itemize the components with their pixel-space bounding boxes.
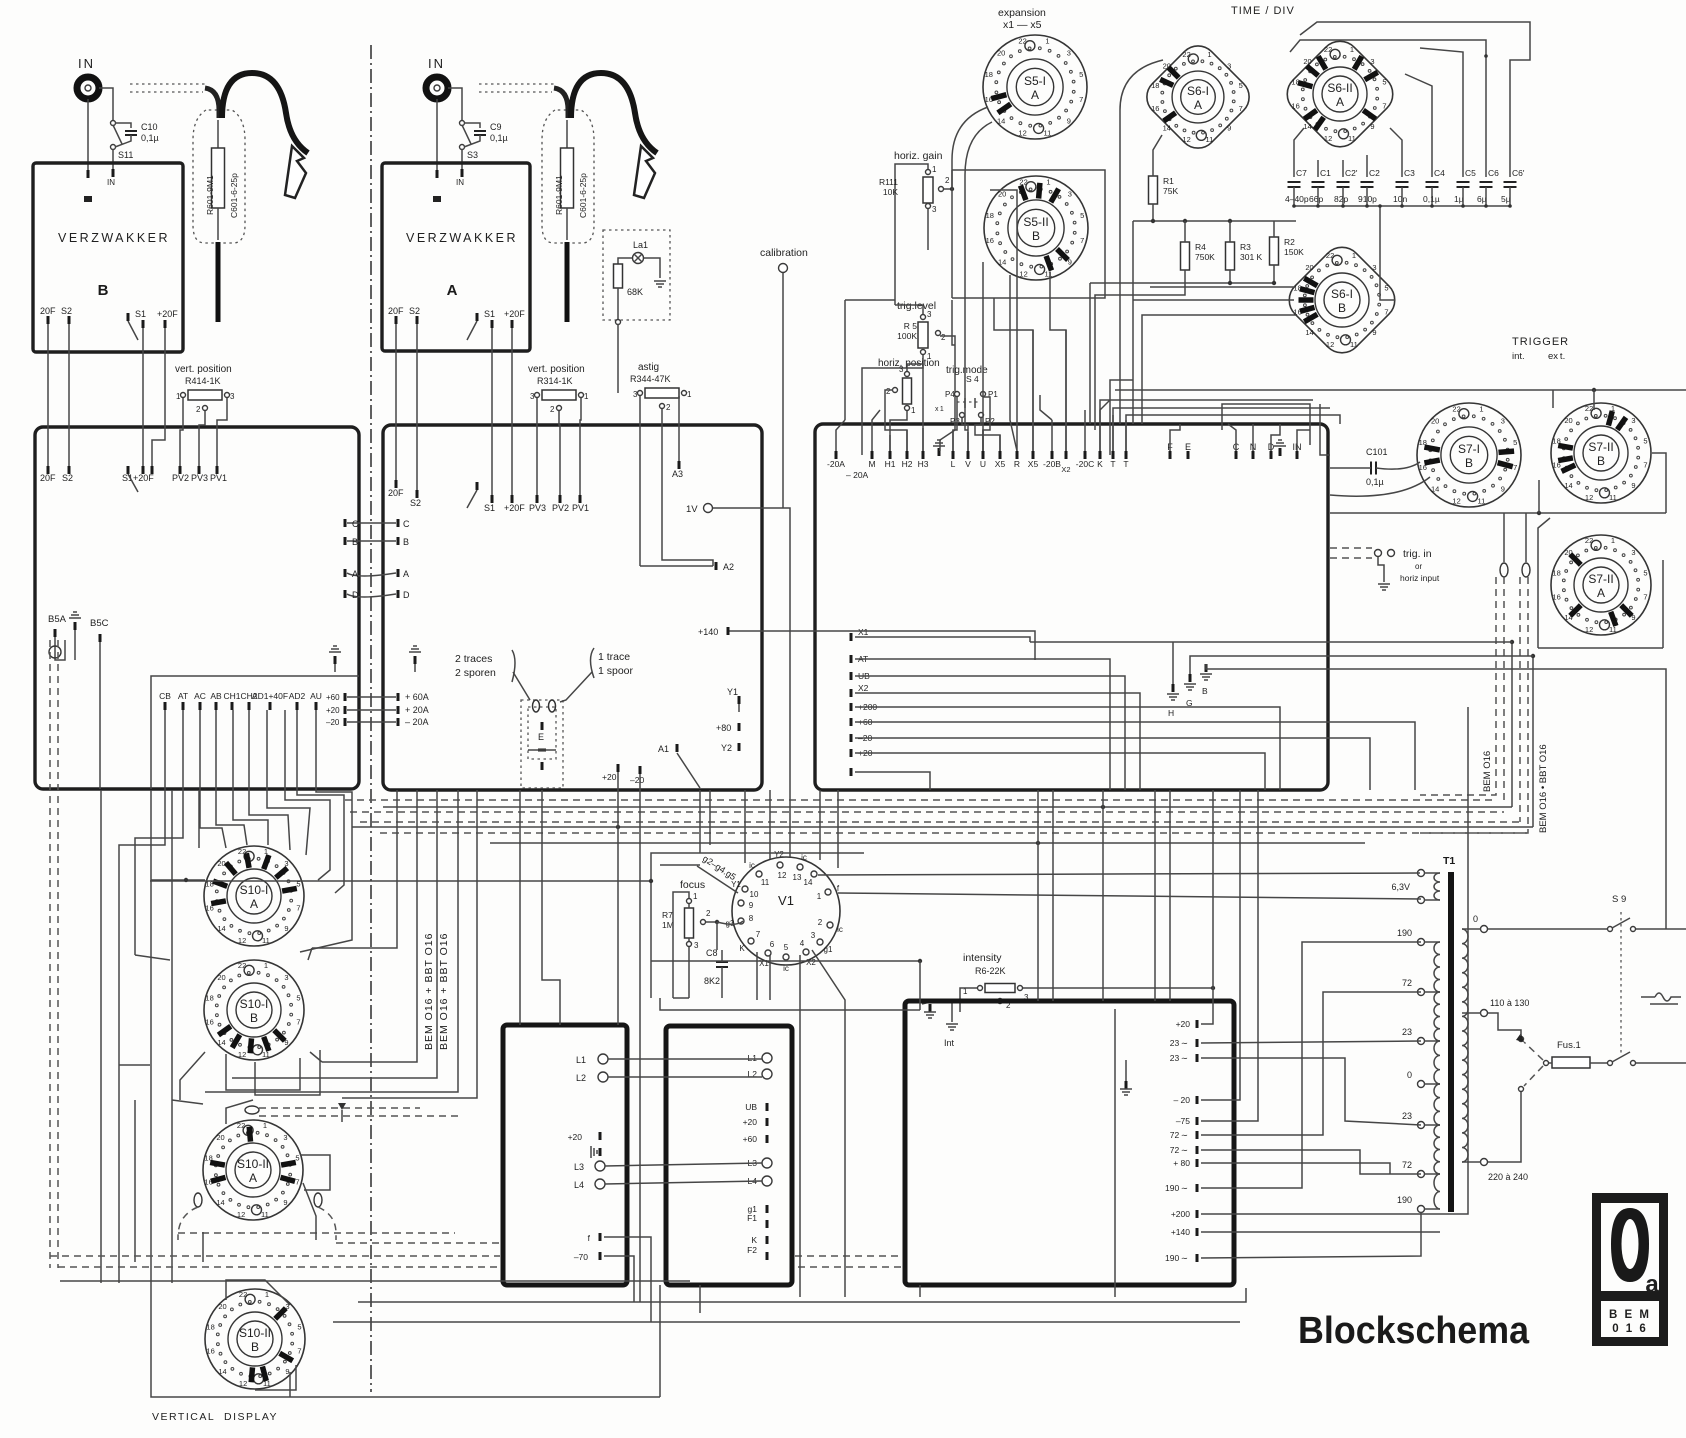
wires +140 and calibration flow	[748, 631, 1035, 660]
svg-text:S 4: S 4	[966, 374, 979, 384]
wire bus dashed horizontals under blocks	[345, 800, 1528, 833]
svg-text:3: 3	[811, 931, 816, 940]
svg-text:– 20A: – 20A	[846, 470, 869, 480]
svg-text:190 ∼: 190 ∼	[1165, 1183, 1188, 1193]
lamp La1 with 68K (dashed box)	[603, 230, 670, 320]
pins L1 L2 (bezel)	[598, 1054, 608, 1064]
svg-text:2: 2	[196, 405, 201, 414]
svg-text:2: 2	[666, 403, 671, 412]
svg-text:AT: AT	[178, 691, 188, 701]
svg-text:10K: 10K	[883, 187, 898, 197]
node trig.in	[1375, 550, 1382, 557]
svg-text:190 ∼: 190 ∼	[1165, 1253, 1188, 1263]
svg-text:3: 3	[694, 941, 699, 950]
wires caps top to S6-II	[1293, 151, 1295, 166]
node C (inter-block link)	[344, 519, 347, 527]
svg-text:C101: C101	[1366, 447, 1388, 457]
svg-text:18: 18	[205, 994, 213, 1003]
node B (inter-block link)	[344, 537, 347, 545]
wires focus	[688, 904, 690, 908]
svg-text:R 5: R 5	[904, 321, 918, 331]
svg-text:7: 7	[297, 1346, 301, 1355]
svg-text:C8: C8	[706, 948, 718, 958]
svg-text:14: 14	[1564, 481, 1572, 490]
svg-text:C2': C2'	[1345, 168, 1358, 178]
svg-text:14: 14	[217, 1038, 225, 1047]
pins VERZWAKKER B bottom	[47, 316, 50, 324]
svg-text:ic: ic	[783, 964, 789, 973]
svg-text:x1 — x5: x1 — x5	[1003, 19, 1042, 31]
resistor R2 150K	[1270, 237, 1279, 265]
svg-text:+ 60A: + 60A	[405, 692, 429, 702]
svg-text:1: 1	[687, 390, 692, 399]
svg-text:R: R	[1014, 459, 1020, 469]
svg-text:R314-1K: R314-1K	[537, 376, 573, 386]
wire jack B to S11	[99, 88, 113, 120]
rotary switch S10-I A	[204, 846, 304, 946]
svg-text:18: 18	[1552, 569, 1560, 578]
svg-text:–20: –20	[326, 718, 340, 727]
wire box C N D IN	[1222, 404, 1310, 445]
primary winding	[1462, 929, 1468, 1162]
svg-text:X2: X2	[806, 958, 816, 967]
svg-text:9: 9	[1227, 124, 1231, 133]
secondary winding taps	[1418, 939, 1425, 946]
svg-text:– 20A: – 20A	[405, 717, 429, 727]
svg-text:A: A	[249, 1171, 257, 1185]
wire bus solid horizontals under blocks	[383, 806, 1512, 808]
svg-text:X5: X5	[1028, 459, 1039, 469]
svg-text:1: 1	[1479, 404, 1483, 413]
svg-text:11: 11	[1348, 134, 1356, 143]
svg-text:190: 190	[1397, 1195, 1412, 1205]
pins E (trace selector)	[521, 700, 563, 788]
svg-text:+20: +20	[326, 706, 340, 715]
svg-text:TIME / DIV: TIME / DIV	[1231, 5, 1295, 17]
svg-text:B5C: B5C	[90, 618, 109, 629]
svg-text:1: 1	[817, 892, 822, 901]
svg-text:E: E	[1185, 442, 1191, 452]
svg-text:A: A	[1336, 95, 1344, 109]
pins CRT socket right column	[762, 1053, 772, 1063]
svg-text:C5: C5	[1465, 168, 1476, 178]
svg-text:S5-I: S5-I	[1024, 74, 1046, 88]
svg-text:0: 0	[1473, 914, 1478, 924]
svg-text:7: 7	[1382, 101, 1386, 110]
dashed verticals left	[50, 640, 58, 1268]
svg-text:100K: 100K	[897, 331, 917, 341]
ground (lamp box)	[644, 258, 660, 278]
svg-text:Fus.1: Fus.1	[1557, 1040, 1581, 1051]
svg-text:focus: focus	[680, 879, 705, 891]
svg-text:La1: La1	[633, 240, 648, 250]
svg-text:B: B	[1338, 301, 1346, 315]
svg-text:5: 5	[1079, 70, 1083, 79]
svg-text:18: 18	[1151, 81, 1159, 90]
svg-text:B: B	[98, 282, 109, 299]
svg-text:A: A	[1031, 88, 1039, 102]
svg-text:14: 14	[997, 116, 1005, 125]
wires S6-I B fan left	[1150, 286, 1295, 288]
svg-text:X2: X2	[858, 683, 869, 693]
wires H G B grounds to S7 rects	[1172, 642, 1174, 684]
svg-text:3: 3	[1631, 416, 1635, 425]
switch S11	[111, 121, 116, 126]
svg-text:16: 16	[986, 236, 994, 245]
svg-text:V: V	[965, 459, 971, 469]
svg-text:C1: C1	[1320, 168, 1331, 178]
svg-text:PV2: PV2	[552, 503, 569, 513]
wire S6-I A to R1	[1153, 135, 1162, 176]
svg-text:R601-9M1: R601-9M1	[205, 175, 215, 215]
svg-text:3: 3	[530, 392, 535, 401]
svg-text:vert. position: vert. position	[175, 364, 232, 375]
svg-text:S2: S2	[62, 473, 73, 483]
pins timebase block top row	[835, 451, 838, 459]
svg-text:AB: AB	[210, 691, 222, 701]
capacitor C2 910p	[1361, 182, 1374, 187]
wires V1 bottom pins down	[799, 955, 801, 1297]
wires supply right pins to transformer	[1201, 790, 1213, 1024]
svg-text:Y2: Y2	[774, 850, 784, 859]
svg-text:D: D	[403, 590, 410, 600]
svg-text:A3: A3	[672, 469, 683, 479]
svg-text:7: 7	[1643, 592, 1647, 601]
svg-text:0,1µ: 0,1µ	[490, 133, 508, 143]
svg-text:9: 9	[749, 901, 754, 910]
svg-text:11: 11	[1609, 625, 1617, 634]
svg-text:R4: R4	[1195, 242, 1206, 252]
svg-text:B E M: B E M	[1609, 1309, 1651, 1321]
svg-text:S3: S3	[467, 150, 478, 160]
svg-text:2: 2	[550, 405, 555, 414]
rotary switch S10-I B	[204, 960, 304, 1060]
svg-text:12: 12	[1182, 135, 1190, 144]
svg-text:+20F: +20F	[504, 503, 525, 513]
svg-text:190: 190	[1397, 928, 1412, 938]
svg-text:-20C: -20C	[1076, 459, 1094, 469]
svg-text:1V: 1V	[686, 504, 698, 515]
pins left block top	[47, 466, 50, 474]
svg-text:ex t.: ex t.	[1548, 351, 1565, 362]
capacitor C4 0,1&#181;	[1426, 182, 1439, 187]
svg-text:12: 12	[1585, 493, 1593, 502]
svg-text:150K: 150K	[1284, 247, 1304, 257]
svg-text:3: 3	[1501, 417, 1505, 426]
wire dashed to trig.in	[1330, 548, 1372, 558]
svg-text:+ 80: + 80	[1173, 1158, 1190, 1168]
svg-text:C10: C10	[141, 122, 158, 132]
svg-text:3: 3	[927, 310, 932, 319]
svg-text:1: 1	[693, 892, 698, 901]
svg-text:5: 5	[784, 943, 789, 952]
wire S11 to IN pin	[112, 149, 114, 170]
block vertical amplifier B (left)	[35, 427, 359, 789]
svg-text:+20: +20	[743, 1117, 758, 1127]
svg-text:5: 5	[1643, 569, 1647, 578]
rotary switch S7-II B	[1551, 403, 1651, 503]
svg-text:Int: Int	[944, 1038, 955, 1048]
pins mid block top	[395, 480, 398, 488]
wires VERZWAKKER B to left block	[47, 324, 49, 466]
block power supply	[905, 1001, 1234, 1285]
svg-text:2 traces: 2 traces	[455, 653, 492, 665]
svg-text:7: 7	[1513, 463, 1517, 472]
svg-text:B: B	[1032, 229, 1040, 243]
wire coax cable B	[205, 88, 219, 118]
svg-text:BEM O16 + BBT O16: BEM O16 + BBT O16	[423, 933, 435, 1050]
svg-text:6,3V: 6,3V	[1391, 882, 1410, 892]
svg-text:301 K: 301 K	[1240, 252, 1263, 262]
svg-text:S1: S1	[484, 309, 495, 319]
svg-text:S6-II: S6-II	[1327, 81, 1352, 95]
wire top loop S6-II	[1294, 128, 1304, 151]
svg-text:1 trace: 1 trace	[598, 651, 630, 663]
capacitor C1 66p	[1312, 182, 1325, 187]
svg-text:expansion: expansion	[998, 7, 1046, 19]
svg-text:9: 9	[1372, 328, 1376, 337]
svg-text:7: 7	[1239, 104, 1243, 113]
svg-text:S7-I: S7-I	[1458, 442, 1480, 456]
svg-text:+60: +60	[743, 1134, 758, 1144]
wire inner box (left block outputs)	[151, 676, 359, 789]
svg-text:1: 1	[1611, 536, 1615, 545]
switch S3	[460, 121, 465, 126]
svg-text:A: A	[403, 569, 409, 579]
svg-text:AU: AU	[310, 691, 322, 701]
svg-text:B: B	[352, 537, 358, 547]
svg-text:14: 14	[1431, 484, 1439, 493]
wire box S10-II A	[172, 1100, 203, 1104]
wire nest S10-I B	[119, 1064, 150, 1066]
pins +20 L3 L4 f -70 (bezel right)	[599, 1132, 602, 1140]
svg-text:3: 3	[1067, 49, 1071, 58]
pins timebase left edge	[850, 633, 853, 641]
wire calibration to 1V	[782, 273, 784, 508]
cable connectors at S10-II A	[245, 1106, 259, 1114]
pins VERZWAKKER A bottom	[395, 316, 398, 324]
wire jack A to S3	[448, 88, 462, 120]
svg-text:K: K	[751, 1235, 757, 1245]
probe assembly A	[479, 84, 554, 92]
svg-text:18: 18	[986, 211, 994, 220]
svg-text:a: a	[1645, 1271, 1659, 1298]
svg-text:PV1: PV1	[572, 503, 589, 513]
svg-text:IN: IN	[78, 56, 95, 71]
svg-text:9: 9	[1370, 122, 1374, 131]
svg-text:S6-I: S6-I	[1187, 84, 1209, 98]
svg-text:9: 9	[1501, 484, 1505, 493]
svg-text:20: 20	[218, 1302, 226, 1311]
svg-text:11: 11	[261, 1210, 269, 1219]
svg-text:PV2: PV2	[172, 473, 189, 483]
ground pin top of supply block	[929, 1004, 932, 1012]
svg-text:1: 1	[932, 165, 937, 174]
svg-text:7: 7	[1384, 307, 1388, 316]
svg-text:S10-I: S10-I	[240, 997, 269, 1011]
svg-text:1M: 1M	[662, 920, 674, 930]
svg-text:1: 1	[1352, 251, 1356, 260]
block VERZWAKKER A	[382, 163, 530, 351]
svg-text:72: 72	[1402, 978, 1412, 988]
svg-text:A2: A2	[723, 562, 734, 572]
svg-text:B: B	[1202, 686, 1208, 696]
wire capacitor bus	[1294, 205, 1510, 207]
svg-text:5: 5	[1382, 78, 1386, 87]
svg-text:+20: +20	[602, 772, 617, 782]
svg-text:20: 20	[1431, 417, 1439, 426]
svg-text:4: 4	[800, 939, 805, 948]
svg-text:TRIGGER: TRIGGER	[1512, 336, 1569, 348]
svg-text:18: 18	[985, 70, 993, 79]
svg-text:R601-9M1: R601-9M1	[554, 175, 564, 215]
svg-text:20F: 20F	[40, 306, 56, 316]
svg-text:B: B	[1465, 456, 1473, 470]
svg-text:K: K	[1097, 459, 1103, 469]
svg-text:12: 12	[239, 1379, 247, 1388]
svg-text:11: 11	[262, 1050, 270, 1059]
probe tip A	[566, 208, 568, 240]
svg-text:20: 20	[217, 859, 225, 868]
svg-text:C6: C6	[1488, 168, 1499, 178]
svg-text:A: A	[1194, 98, 1202, 112]
svg-text:0 1 6: 0 1 6	[1612, 1323, 1648, 1335]
svg-text:C601-6-25p: C601-6-25p	[578, 173, 588, 218]
svg-text:T: T	[1110, 459, 1115, 469]
capacitor C3 10n	[1396, 182, 1409, 187]
svg-text:C6': C6'	[1512, 168, 1525, 178]
svg-text:68K: 68K	[627, 287, 643, 297]
svg-text:110 à 130: 110 à 130	[1490, 998, 1529, 1008]
node A (inter-block link)	[344, 569, 347, 577]
svg-text:Blockschema: Blockschema	[1298, 1310, 1530, 1352]
svg-text:1: 1	[265, 1290, 269, 1299]
svg-text:5: 5	[1513, 438, 1517, 447]
svg-text:3: 3	[1370, 57, 1374, 66]
wires S5-I down left	[965, 122, 992, 260]
svg-text:1: 1	[1046, 177, 1050, 186]
svg-text:Y2: Y2	[721, 743, 732, 753]
wires trig level	[895, 305, 923, 314]
verticals between blocks right	[1037, 790, 1039, 1001]
svg-text:A: A	[447, 282, 458, 299]
svg-text:72 ∼: 72 ∼	[1170, 1130, 1188, 1140]
svg-text:horiz input: horiz input	[1400, 573, 1440, 583]
svg-text:3: 3	[1227, 61, 1231, 70]
wires down to S10-II A	[100, 790, 102, 1283]
svg-text:V1: V1	[778, 893, 794, 908]
svg-text:12: 12	[1452, 497, 1460, 506]
dashed horizontals lower left	[50, 1256, 903, 1267]
rotary switch S10-II A	[203, 1120, 303, 1220]
svg-text:1: 1	[263, 1121, 267, 1130]
capacitor C9	[464, 123, 480, 128]
svg-text:14: 14	[217, 924, 225, 933]
alligator clip B	[285, 146, 306, 198]
svg-text:10: 10	[750, 890, 759, 899]
wire mesh bottom central	[699, 1285, 701, 1313]
wires C N D IN to S7	[1228, 424, 1236, 451]
svg-text:IN: IN	[456, 178, 464, 187]
svg-text:P4: P4	[945, 390, 955, 399]
svg-text:9: 9	[284, 924, 288, 933]
svg-text:K: K	[739, 944, 745, 953]
svg-text:1: 1	[1207, 50, 1211, 59]
svg-text:D: D	[352, 590, 359, 600]
svg-text:0,1µ: 0,1µ	[1366, 477, 1384, 487]
svg-text:S2: S2	[61, 306, 72, 316]
wire 68K down to astig	[617, 288, 619, 320]
svg-text:20: 20	[998, 190, 1006, 199]
svg-text:750K: 750K	[1195, 252, 1215, 262]
wire box around V1	[651, 853, 864, 998]
svg-text:H3: H3	[918, 459, 929, 469]
svg-text:BEM O16 • BBT O16: BEM O16 • BBT O16	[1538, 744, 1549, 833]
svg-text:C601-6-25p: C601-6-25p	[229, 173, 239, 218]
svg-text:9: 9	[283, 1198, 287, 1207]
svg-text:L2: L2	[576, 1073, 586, 1083]
rotary switch S10-II B	[205, 1289, 305, 1389]
svg-text:C2: C2	[1369, 168, 1380, 178]
svg-text:18: 18	[206, 1323, 214, 1332]
svg-text:A: A	[1597, 586, 1605, 600]
svg-text:3: 3	[633, 390, 638, 399]
svg-text:ic: ic	[801, 853, 807, 862]
svg-text:14: 14	[804, 878, 813, 887]
wire trig.in ground	[1378, 557, 1384, 582]
wire g2-g4.g5	[697, 866, 738, 893]
svg-text:ic: ic	[749, 861, 755, 870]
svg-text:75K: 75K	[1163, 186, 1178, 196]
svg-text:R111: R111	[879, 177, 898, 187]
wire coax cable A	[554, 88, 568, 118]
svg-text:R6-22K: R6-22K	[975, 966, 1006, 976]
wire jack A down	[436, 99, 438, 172]
svg-text:7: 7	[295, 1177, 299, 1186]
svg-text:11: 11	[1045, 270, 1053, 279]
svg-text:7: 7	[1643, 460, 1647, 469]
svg-text:14: 14	[1305, 328, 1313, 337]
pins C N D IN	[1235, 451, 1238, 459]
svg-text:12: 12	[1324, 134, 1332, 143]
wire F E to down-left	[1110, 380, 1133, 455]
svg-text:5: 5	[1080, 211, 1084, 220]
svg-text:20F: 20F	[388, 488, 404, 498]
svg-text:C9: C9	[490, 122, 502, 132]
wire center dash-dot separator	[370, 45, 372, 1392]
svg-text:Y1: Y1	[727, 687, 738, 697]
svg-text:ic: ic	[837, 925, 843, 934]
svg-text:vert. position: vert. position	[528, 364, 585, 375]
svg-text:20: 20	[217, 973, 225, 982]
block CRT bezel (bottom left)	[503, 1025, 627, 1285]
ground inside supply	[1125, 1081, 1128, 1089]
svg-text:14: 14	[216, 1198, 224, 1207]
svg-text:14: 14	[998, 257, 1006, 266]
svg-text:20: 20	[1305, 263, 1313, 272]
pins left block output row	[164, 702, 167, 710]
svg-text:S10-I: S10-I	[240, 883, 269, 897]
svg-text:AD1+40F: AD1+40F	[252, 691, 288, 701]
capacitor C6' 5&#181;	[1504, 182, 1517, 187]
svg-text:8K2: 8K2	[704, 976, 720, 986]
block vertical amplifier A (middle)	[383, 425, 762, 790]
ground pins above inner box	[334, 656, 337, 664]
svg-text:10n: 10n	[1393, 194, 1407, 204]
svg-text:20F: 20F	[388, 306, 404, 316]
svg-text:1: 1	[1045, 36, 1049, 45]
svg-text:L3: L3	[574, 1162, 584, 1172]
